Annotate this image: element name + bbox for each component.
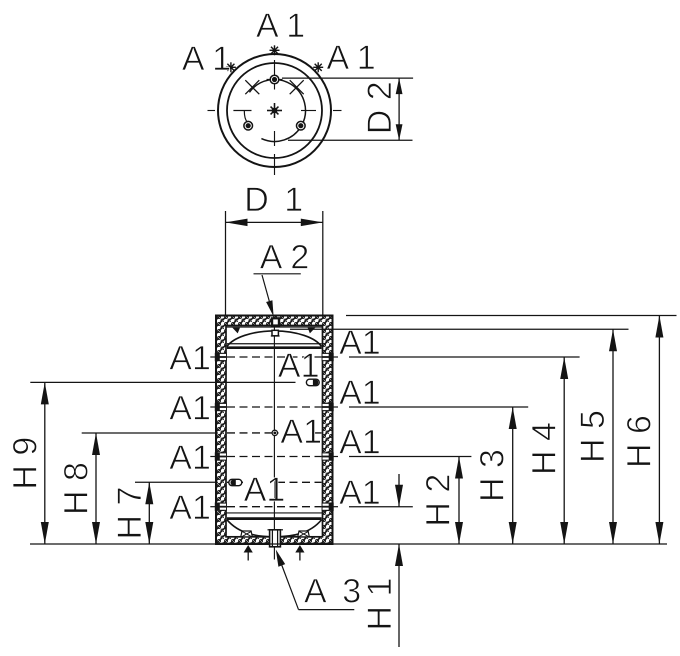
svg-text:A1: A1 [278, 347, 320, 385]
svg-text:H 6: H 6 [620, 415, 658, 468]
svg-text:H 4: H 4 [525, 422, 563, 475]
svg-text:A1: A1 [244, 471, 286, 509]
svg-text:H 1: H 1 [361, 578, 399, 631]
svg-text:A 3: A 3 [304, 573, 365, 611]
svg-text:A1: A1 [339, 474, 381, 512]
svg-text:A2: A2 [260, 239, 318, 277]
svg-text:A 1: A 1 [327, 39, 376, 77]
svg-text:A 1: A 1 [182, 40, 231, 78]
svg-text:D 1: D 1 [244, 181, 306, 219]
svg-text:A1: A1 [169, 389, 211, 427]
svg-text:A1: A1 [339, 424, 381, 462]
svg-text:D 2: D 2 [361, 81, 399, 134]
svg-text:A 1: A 1 [256, 7, 305, 45]
svg-text:H 9: H 9 [7, 437, 45, 490]
svg-text:H 5: H 5 [574, 410, 612, 463]
svg-text:A1: A1 [339, 324, 381, 362]
svg-text:A1: A1 [169, 489, 211, 527]
svg-text:H 7: H 7 [111, 487, 149, 540]
svg-text:A1: A1 [339, 374, 381, 412]
svg-text:A1: A1 [169, 439, 211, 477]
svg-text:A1: A1 [280, 413, 322, 451]
svg-text:H 2: H 2 [419, 474, 457, 527]
svg-text:H 3: H 3 [473, 449, 511, 502]
svg-text:A1: A1 [169, 339, 211, 377]
svg-text:H 8: H 8 [58, 462, 96, 515]
